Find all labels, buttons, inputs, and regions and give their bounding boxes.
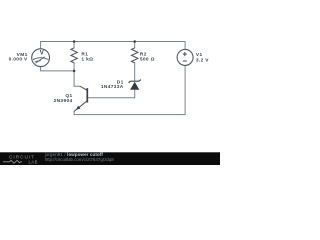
svg-text:0.000 V: 0.000 V [9, 57, 28, 63]
svg-text:2N3904: 2N3904 [54, 98, 73, 104]
svg-text:1 kΩ: 1 kΩ [81, 57, 93, 63]
svg-text:3.2 V: 3.2 V [196, 58, 209, 64]
svg-text:http://circuitlab.com/c/zt7647: http://circuitlab.com/c/zt7647grzdq8 [45, 157, 115, 162]
svg-text:LAB: LAB [29, 159, 38, 164]
svg-text:500 Ω: 500 Ω [140, 57, 155, 63]
svg-text:V1: V1 [196, 52, 203, 58]
svg-text:1N4733A: 1N4733A [101, 84, 124, 90]
svg-text:V: V [40, 50, 44, 56]
